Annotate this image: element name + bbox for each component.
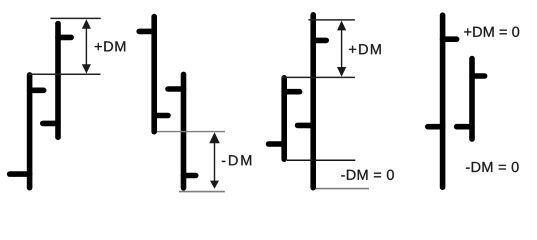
low reference line today (group 3) [316, 188, 369, 190]
-DM label (group 2) [222, 155, 251, 165]
bar C close tick [154, 113, 168, 119]
bar H vertical (group 4, yesterday) [469, 59, 475, 139]
high reference line today (group 3) [308, 19, 355, 21]
bar E vertical (group 3, yesterday) [281, 78, 287, 159]
high reference line yesterday (group 1) [28, 73, 100, 75]
bar H open tick [457, 124, 472, 130]
bar G open tick [428, 124, 443, 130]
-DM = 0 label (group 3) [341, 170, 394, 180]
bar A vertical (group 1, yesterday) [27, 75, 33, 188]
bar G close tick [443, 36, 457, 42]
-DM = 0 label (group 4) [466, 162, 519, 172]
high reference line yesterday (group 3) [282, 76, 355, 78]
bar A open tick [10, 171, 30, 177]
bar B vertical (group 1, today) [55, 24, 61, 138]
bar D vertical (group 2, today) [181, 74, 187, 187]
bar H close tick [472, 73, 485, 79]
+DM measurement arrow (group 3) [337, 21, 346, 77]
low reference line today (group 2) [179, 191, 225, 193]
+DM measurement arrow (group 1) [82, 19, 91, 73]
bar F open tick [298, 123, 314, 129]
high reference line today (group 1) [50, 17, 100, 19]
bar D close tick [184, 173, 196, 179]
bar C open tick [139, 29, 154, 35]
bar E close tick [284, 89, 299, 95]
bar A close tick [30, 88, 44, 94]
bar B close tick [58, 35, 71, 41]
bar G vertical (group 4, today inside bar) [440, 15, 446, 187]
bar D open tick [168, 86, 184, 92]
low reference line yesterday (group 3) [287, 159, 355, 161]
low reference line yesterday (group 2) [157, 131, 225, 133]
bar C vertical (group 2, yesterday) [151, 17, 157, 132]
bar E open tick [269, 141, 285, 147]
-DM measurement arrow (group 2) [209, 132, 220, 189]
bar B open tick [43, 121, 58, 127]
bar F vertical (group 3, today outside bar) [310, 15, 316, 188]
+DM = 0 label (group 4) [464, 27, 519, 37]
bar F close tick [313, 38, 326, 44]
+DM label (group 1) [95, 41, 126, 51]
+DM label (group 3) [349, 44, 381, 54]
